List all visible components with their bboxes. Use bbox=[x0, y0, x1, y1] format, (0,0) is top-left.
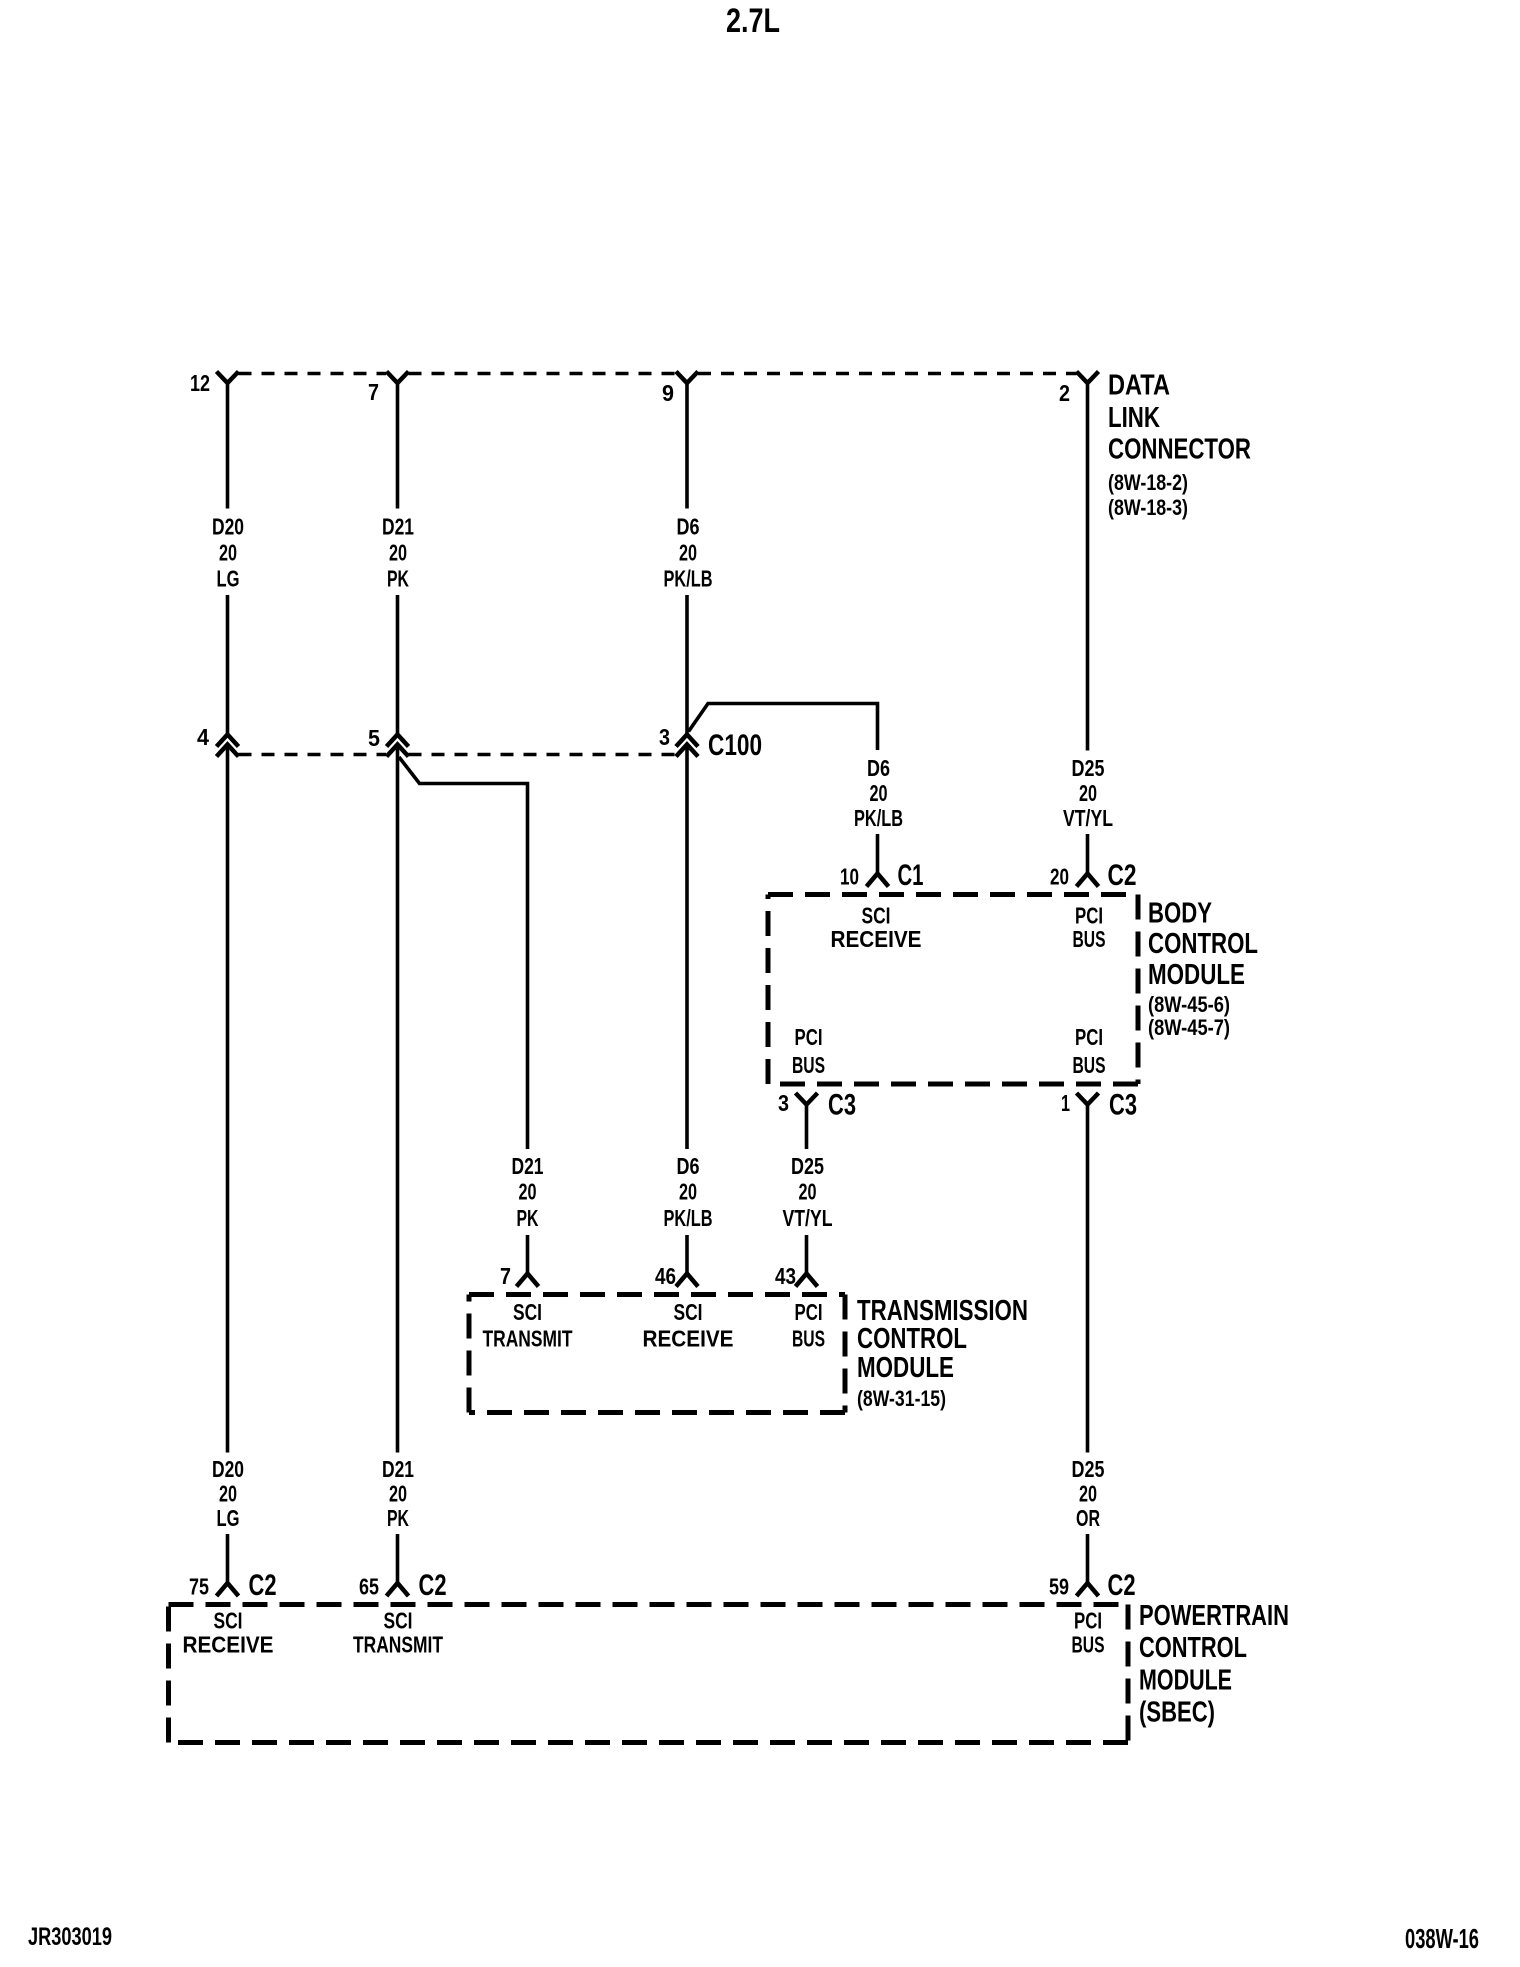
svg-text:C2: C2 bbox=[249, 1569, 277, 1602]
TCM pin 7 bbox=[517, 1274, 539, 1287]
svg-text:PK/LB: PK/LB bbox=[664, 566, 713, 592]
svg-text:12: 12 bbox=[190, 370, 210, 396]
svg-text:7: 7 bbox=[368, 379, 379, 405]
svg-text:20: 20 bbox=[1079, 780, 1097, 806]
svg-text:65: 65 bbox=[359, 1574, 379, 1600]
svg-text:SCI: SCI bbox=[862, 903, 891, 929]
svg-text:D6: D6 bbox=[867, 755, 890, 781]
wire D20 from DLC pin 12 bbox=[226, 383, 230, 509]
wire bbox=[226, 1534, 230, 1583]
svg-text:BUS: BUS bbox=[792, 1052, 825, 1078]
svg-text:20: 20 bbox=[1079, 1481, 1097, 1507]
svg-text:PCI: PCI bbox=[1075, 903, 1103, 929]
svg-text:20: 20 bbox=[1050, 864, 1069, 890]
C100 pin 3 bbox=[676, 735, 698, 747]
wire branch C100 pin 5 to TCM bbox=[399, 757, 528, 1149]
svg-text:C2: C2 bbox=[419, 1569, 447, 1602]
BCM pin 3 C3 bbox=[796, 1093, 818, 1105]
svg-text:PCI: PCI bbox=[1075, 1024, 1103, 1050]
svg-text:10: 10 bbox=[840, 864, 859, 890]
svg-text:038W-16: 038W-16 bbox=[1405, 1923, 1479, 1954]
svg-text:MODULE: MODULE bbox=[1148, 959, 1245, 991]
svg-text:BUS: BUS bbox=[792, 1326, 825, 1352]
wire dashed segment bbox=[409, 753, 676, 757]
wire D21 to PCM pin 65 bbox=[396, 747, 400, 1453]
svg-text:46: 46 bbox=[655, 1263, 676, 1289]
svg-text:4: 4 bbox=[197, 724, 209, 750]
svg-text:C3: C3 bbox=[1109, 1089, 1137, 1122]
svg-text:D21: D21 bbox=[512, 1153, 544, 1179]
svg-text:9: 9 bbox=[662, 380, 674, 406]
svg-text:D25: D25 bbox=[1072, 755, 1105, 781]
wire bbox=[805, 1235, 809, 1274]
wire dashed segment bbox=[409, 372, 676, 376]
wire D25 from BCM pin 1 to PCM pin 59 bbox=[1086, 1105, 1090, 1453]
wire bbox=[685, 595, 689, 735]
wire bbox=[685, 1235, 689, 1274]
svg-text:CONTROL: CONTROL bbox=[857, 1323, 967, 1355]
TCM pin 46 bbox=[676, 1274, 698, 1287]
svg-text:RECEIVE: RECEIVE bbox=[183, 1632, 274, 1658]
svg-text:(8W-31-15): (8W-31-15) bbox=[857, 1386, 946, 1411]
wire bbox=[226, 595, 230, 735]
wire bbox=[1086, 834, 1090, 874]
svg-text:3: 3 bbox=[778, 1090, 789, 1116]
svg-text:PK/LB: PK/LB bbox=[664, 1205, 713, 1231]
svg-text:SCI: SCI bbox=[214, 1608, 243, 1634]
svg-text:LINK: LINK bbox=[1108, 402, 1160, 434]
svg-text:CONNECTOR: CONNECTOR bbox=[1108, 434, 1251, 466]
BCM pin 1 C3 bbox=[1077, 1093, 1099, 1105]
svg-text:D25: D25 bbox=[791, 1153, 824, 1179]
svg-text:VT/YL: VT/YL bbox=[783, 1205, 833, 1231]
svg-text:PK: PK bbox=[387, 566, 409, 592]
svg-text:2: 2 bbox=[1059, 380, 1070, 406]
svg-text:20: 20 bbox=[389, 1481, 407, 1507]
svg-text:(8W-18-2): (8W-18-2) bbox=[1108, 470, 1188, 495]
wire D6 from DLC pin 9 bbox=[685, 383, 689, 509]
wire bbox=[876, 834, 880, 874]
svg-text:C2: C2 bbox=[1108, 859, 1137, 892]
wire D25 from BCM pin 3 bbox=[805, 1105, 809, 1150]
svg-text:(8W-18-3): (8W-18-3) bbox=[1108, 495, 1188, 520]
svg-text:D6: D6 bbox=[677, 1153, 700, 1179]
svg-text:1: 1 bbox=[1061, 1090, 1070, 1116]
svg-text:TRANSMIT: TRANSMIT bbox=[353, 1632, 443, 1658]
BCM pin 10 C1 bbox=[867, 874, 889, 887]
svg-text:C100: C100 bbox=[708, 729, 762, 762]
svg-text:SCI: SCI bbox=[384, 1608, 413, 1634]
svg-text:RECEIVE: RECEIVE bbox=[831, 926, 922, 952]
svg-text:20: 20 bbox=[219, 1481, 237, 1507]
wire D25 from DLC pin 2 bbox=[1086, 383, 1090, 751]
svg-text:7: 7 bbox=[500, 1263, 511, 1289]
PCM pin 75 C2 bbox=[217, 1583, 239, 1596]
DLC pin 9 bbox=[676, 372, 698, 384]
svg-text:D21: D21 bbox=[382, 514, 414, 540]
wire bbox=[396, 595, 400, 735]
data link connector dashed line bbox=[239, 372, 387, 376]
powertrain control module box bbox=[169, 1602, 1129, 1607]
svg-text:BUS: BUS bbox=[1073, 1052, 1106, 1078]
svg-text:5: 5 bbox=[368, 725, 380, 751]
svg-text:20: 20 bbox=[219, 540, 237, 566]
wire D20 to PCM pin 75 bbox=[226, 747, 230, 1453]
C100 pin 5 bbox=[387, 735, 409, 747]
svg-text:MODULE: MODULE bbox=[1139, 1665, 1232, 1697]
wire bbox=[396, 1534, 400, 1583]
wire D6 to TCM pin 46 bbox=[685, 747, 689, 1149]
svg-text:RECEIVE: RECEIVE bbox=[643, 1326, 734, 1352]
svg-text:LG: LG bbox=[217, 1505, 240, 1531]
svg-text:BUS: BUS bbox=[1073, 926, 1106, 952]
svg-text:PK: PK bbox=[517, 1205, 539, 1231]
BCM pin 20 C2 bbox=[1077, 874, 1099, 887]
svg-text:CONTROL: CONTROL bbox=[1148, 928, 1258, 960]
svg-text:(SBEC): (SBEC) bbox=[1139, 1697, 1215, 1729]
wire dashed segment bbox=[698, 372, 1077, 376]
body control module box bbox=[768, 892, 1138, 897]
wire branch C100 pin 3 to BCM bbox=[689, 704, 878, 751]
svg-text:D20: D20 bbox=[212, 1456, 244, 1482]
svg-text:PCI: PCI bbox=[795, 1299, 823, 1325]
svg-text:20: 20 bbox=[519, 1179, 537, 1205]
svg-text:20: 20 bbox=[679, 1179, 697, 1205]
PCM pin 59 C2 bbox=[1077, 1583, 1099, 1596]
svg-text:(8W-45-6): (8W-45-6) bbox=[1148, 992, 1230, 1017]
connector C100 dashed line bbox=[239, 753, 387, 757]
svg-text:D21: D21 bbox=[382, 1456, 414, 1482]
svg-text:3: 3 bbox=[659, 724, 670, 750]
svg-text:PCI: PCI bbox=[795, 1024, 823, 1050]
transmission control module box bbox=[469, 1292, 845, 1297]
svg-text:OR: OR bbox=[1076, 1505, 1100, 1531]
svg-text:SCI: SCI bbox=[513, 1299, 542, 1325]
svg-text:MODULE: MODULE bbox=[857, 1352, 954, 1384]
svg-text:PK/LB: PK/LB bbox=[854, 805, 903, 831]
wire bbox=[526, 1235, 530, 1274]
PCM pin 65 C2 bbox=[387, 1583, 409, 1596]
svg-text:POWERTRAIN: POWERTRAIN bbox=[1139, 1600, 1289, 1632]
svg-text:20: 20 bbox=[799, 1179, 817, 1205]
svg-text:20: 20 bbox=[870, 780, 888, 806]
svg-text:(8W-45-7): (8W-45-7) bbox=[1148, 1015, 1230, 1040]
svg-text:VT/YL: VT/YL bbox=[1063, 805, 1113, 831]
DLC pin 7 bbox=[387, 372, 409, 384]
svg-text:C3: C3 bbox=[828, 1089, 856, 1122]
svg-text:LG: LG bbox=[217, 566, 240, 592]
svg-text:20: 20 bbox=[389, 540, 407, 566]
svg-text:BODY: BODY bbox=[1148, 898, 1212, 930]
svg-text:PCI: PCI bbox=[1074, 1608, 1102, 1634]
svg-text:D6: D6 bbox=[677, 514, 700, 540]
svg-text:43: 43 bbox=[775, 1263, 796, 1289]
svg-text:C2: C2 bbox=[1108, 1569, 1136, 1602]
svg-text:SCI: SCI bbox=[674, 1299, 703, 1325]
svg-text:20: 20 bbox=[679, 540, 697, 566]
svg-text:2.7L: 2.7L bbox=[726, 2, 780, 40]
C100 pin 4 bbox=[217, 735, 239, 747]
svg-text:PK: PK bbox=[387, 1505, 409, 1531]
svg-text:75: 75 bbox=[189, 1574, 209, 1600]
wire D21 from DLC pin 7 bbox=[396, 383, 400, 509]
svg-text:D20: D20 bbox=[212, 514, 244, 540]
DLC pin 2 bbox=[1077, 372, 1099, 384]
DLC pin 12 bbox=[217, 372, 239, 384]
svg-text:C1: C1 bbox=[898, 859, 924, 892]
svg-text:DATA: DATA bbox=[1108, 370, 1170, 402]
wire bbox=[1086, 1534, 1090, 1583]
svg-text:59: 59 bbox=[1049, 1574, 1069, 1600]
svg-text:CONTROL: CONTROL bbox=[1139, 1632, 1247, 1664]
svg-text:JR303019: JR303019 bbox=[28, 1923, 112, 1951]
svg-text:BUS: BUS bbox=[1072, 1632, 1105, 1658]
svg-text:TRANSMIT: TRANSMIT bbox=[483, 1326, 573, 1352]
svg-text:D25: D25 bbox=[1072, 1456, 1105, 1482]
TCM pin 43 bbox=[796, 1274, 818, 1287]
